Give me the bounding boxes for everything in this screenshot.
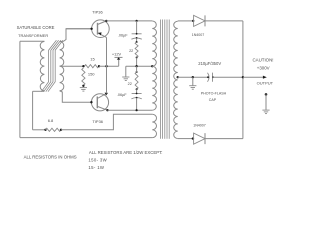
wire mid rail	[126, 65, 153, 67]
node snubber top junction	[136, 20, 138, 22]
wire T1 feedback bottom to Q2 base	[60, 91, 92, 102]
wire C2 to bottom rail	[136, 98, 138, 110]
label PHOTO-FLASH	[201, 91, 227, 95]
transistor Q1 emitter diagonal	[98, 33, 107, 38]
label +12V	[112, 52, 122, 57]
transistor Q1 circle	[92, 20, 110, 38]
resistor R1 150	[82, 68, 85, 85]
wire top rail Q1 collector to T2	[106, 20, 152, 22]
node output junction	[242, 76, 244, 78]
diode D2 cathode bar	[204, 133, 206, 144]
node D1 anode	[192, 20, 194, 22]
diode D1 triangle	[194, 15, 205, 26]
transistor Q2 emitter arrow (PNP)	[105, 93, 108, 96]
ground for R1	[80, 88, 87, 92]
label TIP36 bottom	[92, 119, 103, 124]
label CAUTION!	[253, 58, 274, 63]
node Q1 collector corner	[105, 20, 107, 22]
transistor Q1 base bar	[97, 23, 99, 35]
wire R2 to +12V riser	[99, 65, 119, 67]
wire D2 to right bus	[205, 138, 243, 140]
transformer T2 core	[160, 20, 169, 139]
svg-text:+300V: +300V	[257, 66, 270, 71]
svg-text:15- 1W: 15- 1W	[88, 165, 105, 170]
wire down from T1 primary bottom	[32, 91, 34, 130]
transformer T1 saturable core	[41, 40, 63, 91]
node R3 bottom	[136, 57, 138, 59]
wire bottom long rail	[20, 137, 152, 139]
transistor Q1 collector diagonal	[98, 21, 107, 25]
wire +12V riser	[118, 57, 120, 66]
label 210uF/350V	[198, 61, 221, 66]
svg-text:CAP: CAP	[209, 98, 217, 102]
resistor R3 22	[135, 42, 138, 57]
svg-text:150- 3W: 150- 3W	[88, 157, 107, 162]
capacitor C2 .06uF plate 1	[132, 93, 142, 95]
note ALL RESISTORS ARE 1/2W EXCEPT:	[89, 150, 163, 155]
svg-text:210µF/350V: 210µF/350V	[198, 61, 221, 66]
node Q2 base	[90, 101, 92, 103]
wire snubber top lead	[136, 21, 138, 34]
transformer T1 feedback winding (right)	[60, 42, 64, 91]
wire right bus vertical	[242, 21, 244, 139]
diode D1 cathode bar	[204, 15, 206, 26]
label 1N4007 top	[192, 33, 205, 37]
wire T1 primary bottom	[33, 90, 45, 92]
svg-text:ALL RESISTORS ARE 1/2W EXCEPT:: ALL RESISTORS ARE 1/2W EXCEPT:	[89, 150, 163, 155]
wire 6.8 row to feedback winding	[61, 114, 152, 130]
diode D2 triangle	[194, 133, 205, 144]
label 1N4007 bottom	[193, 123, 206, 127]
transistor Q2 base bar	[96, 97, 98, 109]
wire mid rail ground drop	[125, 66, 127, 77]
label 15	[90, 57, 95, 62]
note 15- 1W	[88, 165, 105, 170]
node 6.8 right	[60, 129, 62, 131]
transistor Q2 emitter diagonal	[97, 93, 106, 98]
transistor Q2 circle	[91, 94, 108, 111]
transformer T2 primary lower half	[152, 66, 156, 110]
capacitor C3 photo-flash flat plate	[212, 73, 214, 82]
node R3 top	[136, 41, 138, 43]
node R4 top	[136, 71, 138, 73]
wire left rail vertical	[19, 41, 21, 137]
node Q1 base	[90, 28, 92, 30]
label .06uF top	[118, 34, 128, 38]
wire R4 to C2	[136, 89, 138, 93]
node R4 bottom	[136, 88, 138, 90]
svg-text:TIP36: TIP36	[92, 9, 103, 14]
wire T2 secondary top to D1	[178, 20, 194, 22]
transformer T2 secondary winding	[174, 21, 178, 138]
svg-text:ALL RESISTORS IN OHMS: ALL RESISTORS IN OHMS	[24, 155, 77, 160]
svg-text:TRANSFORMER: TRANSFORMER	[18, 33, 48, 38]
label CAP	[209, 98, 217, 102]
label .06uF bottom	[117, 93, 127, 97]
svg-text:TIP36: TIP36	[92, 119, 103, 124]
node mid rail snubber junction	[135, 65, 137, 67]
label OUTPUT	[257, 81, 274, 86]
wire 6.8 ohm row left	[33, 129, 46, 131]
transformer T2 feedback winding	[152, 114, 156, 137]
label TIP36 top	[92, 9, 103, 14]
node mid rail T2 tap	[151, 65, 153, 67]
resistor R5 6.8	[46, 128, 61, 131]
wire secondary tap to cap	[178, 76, 208, 78]
wire D1 to right bus	[205, 20, 243, 22]
wire C1 to R3	[136, 38, 138, 42]
wire T1 feedback center tap	[60, 65, 84, 67]
svg-text:CAUTION!: CAUTION!	[253, 58, 274, 63]
wire R3 to mid rail	[136, 58, 138, 67]
svg-text:1N4007: 1N4007	[192, 33, 205, 37]
transformer T2 primary upper half	[152, 21, 156, 66]
node tap junction	[82, 65, 84, 67]
wire Q1 base	[66, 28, 92, 30]
svg-text:PHOTO-FLASH: PHOTO-FLASH	[201, 91, 227, 95]
transformer T1 primary winding (left)	[40, 42, 44, 91]
svg-text:+12V: +12V	[112, 52, 122, 57]
svg-text:6.8: 6.8	[48, 118, 54, 123]
arrow output	[263, 76, 267, 79]
wire T1 primary top to left rail	[20, 40, 45, 42]
supply +12V arrowhead	[117, 57, 121, 59]
label 22 top	[129, 49, 133, 53]
wire mid rail to R4	[136, 66, 138, 72]
svg-text:SATURABLE CORE: SATURABLE CORE	[17, 25, 55, 30]
node T2 secondary center tap	[177, 76, 179, 78]
capacitor C1 .06uF plate 1	[132, 33, 142, 35]
svg-text:22: 22	[129, 49, 133, 53]
svg-text:OUTPUT: OUTPUT	[257, 81, 274, 86]
wire T1 feedback top to Q1 base	[60, 29, 92, 42]
ground secondary	[189, 86, 196, 90]
wire emitter bus vertical	[106, 37, 108, 93]
svg-text:150: 150	[88, 72, 95, 77]
transistor Q1 emitter arrow (PNP)	[98, 32, 102, 35]
svg-text:15: 15	[90, 57, 95, 62]
label 150	[88, 72, 95, 77]
capacitor C3 photo-flash curved plate	[207, 73, 209, 82]
svg-text:.06µF: .06µF	[117, 93, 127, 97]
note 150- 3W	[88, 157, 107, 162]
ground mid rail	[122, 77, 129, 81]
wire cap to right bus	[213, 76, 243, 78]
capacitor C1 .06uF plate 2	[131, 37, 141, 39]
wire output lead	[243, 76, 264, 78]
wire bottom rail Q2 collector to T2	[108, 109, 153, 111]
node cap ground junction	[192, 76, 194, 78]
label 22 bottom	[128, 82, 132, 86]
resistor R2 15	[85, 65, 99, 68]
wire T2 secondary bottom to D2	[178, 138, 193, 140]
node emitter line junction	[105, 65, 107, 67]
svg-text:.06µF: .06µF	[118, 34, 128, 38]
resistor R4 22	[135, 72, 138, 89]
transistor Q2 collector diagonal	[97, 106, 107, 110]
node 6.8 left	[44, 129, 46, 131]
ground output return	[262, 110, 269, 114]
svg-text:22: 22	[128, 82, 132, 86]
node Q2 collector corner	[106, 109, 108, 111]
capacitor C2 .06uF plate 2	[131, 97, 141, 99]
wire output return to ground	[265, 94, 267, 110]
node D2 anode	[192, 137, 194, 139]
node R1 bottom	[82, 85, 84, 87]
node bottom rail snubber junction	[136, 109, 138, 111]
note ALL RESISTORS IN OHMS	[24, 155, 77, 160]
node output return terminal	[265, 93, 268, 96]
wire cap ground drop	[192, 77, 194, 85]
label +300V	[257, 66, 270, 71]
supply +12V bar	[115, 56, 123, 58]
svg-text:1N4007: 1N4007	[193, 123, 206, 127]
node R2 right	[98, 65, 100, 67]
label SATURABLE CORE TRANSFORMER	[17, 25, 55, 38]
label 6.8	[48, 118, 54, 123]
